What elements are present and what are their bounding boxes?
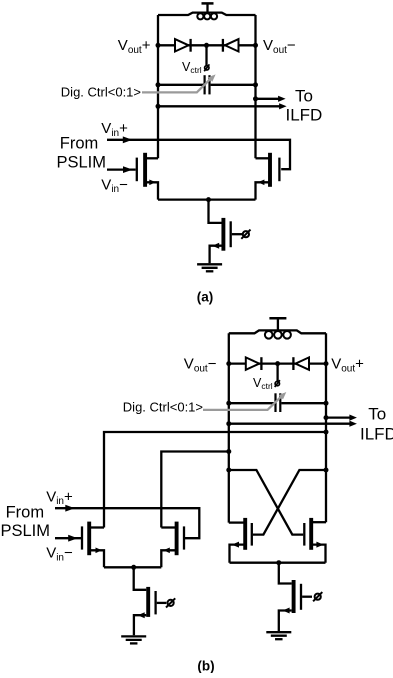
svg-text:Dig. Ctrl<0:1>: Dig. Ctrl<0:1> <box>123 399 203 414</box>
svg-text:Dig. Ctrl<0:1>: Dig. Ctrl<0:1> <box>61 84 141 99</box>
svg-text:ILFD: ILFD <box>286 105 323 124</box>
svg-text:(b): (b) <box>197 659 214 674</box>
svg-text:PSLIM: PSLIM <box>1 522 51 540</box>
svg-text:(a): (a) <box>197 290 214 305</box>
svg-text:To: To <box>368 404 386 423</box>
svg-text:To: To <box>295 86 313 105</box>
svg-text:PSLIM: PSLIM <box>57 154 107 172</box>
svg-text:From: From <box>60 135 99 153</box>
svg-text:From: From <box>6 504 45 522</box>
svg-text:ILFD: ILFD <box>360 425 393 444</box>
